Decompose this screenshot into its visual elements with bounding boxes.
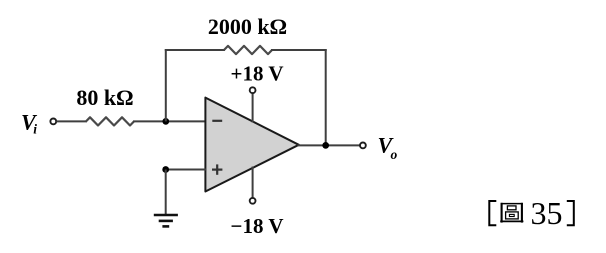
op-amp inverting input marker (minus)	[212, 120, 222, 122]
wire: op-amp output to terminal	[298, 144, 360, 146]
node C (junction dot at + input)	[162, 166, 169, 173]
negative supply terminal (open circle)	[250, 198, 256, 204]
svg-text:+18 V: +18 V	[230, 61, 283, 85]
positive supply terminal (open circle)	[250, 87, 256, 93]
input terminal (open circle)	[50, 119, 56, 125]
wire: R1 to node A	[133, 120, 206, 122]
wire: feedback vertical left (node A up)	[165, 49, 167, 121]
wire: negative supply pin	[252, 167, 254, 198]
wire: non-inverting input	[166, 169, 206, 171]
svg-text:80 kΩ: 80 kΩ	[76, 85, 133, 110]
glyph: CJK character TU (figure) drawn as strokes	[500, 203, 523, 223]
wire: node C down to ground	[165, 170, 167, 215]
resistor R1 (80 kOhm) zigzag	[86, 117, 134, 125]
label Vo	[378, 132, 398, 162]
svg-text:i: i	[33, 121, 37, 136]
wire: input terminal to R1	[56, 120, 87, 122]
wire: feedback top right segment	[271, 49, 327, 51]
svg-text:−18 V: −18 V	[230, 214, 283, 238]
svg-text:35: 35	[531, 195, 563, 231]
resistor R2 (2000 kOhm) zigzag	[224, 46, 272, 54]
output terminal (open circle)	[360, 143, 366, 149]
label ] of figure caption	[567, 201, 574, 225]
node A (junction dot, inverting input net)	[162, 118, 169, 125]
wire: feedback vertical right (down to output node)	[325, 49, 327, 145]
op-amp non-inverting input marker (plus)	[212, 164, 222, 174]
svg-text:2000 kΩ: 2000 kΩ	[208, 14, 287, 39]
ground	[154, 215, 178, 226]
node B (output junction dot)	[322, 142, 329, 149]
svg-text:o: o	[391, 147, 398, 162]
label Vi	[21, 110, 38, 137]
wire: positive supply pin	[252, 94, 254, 123]
wire: feedback top left segment	[165, 49, 225, 51]
op-amp U1	[205, 98, 298, 192]
label [ of figure caption	[489, 201, 496, 225]
